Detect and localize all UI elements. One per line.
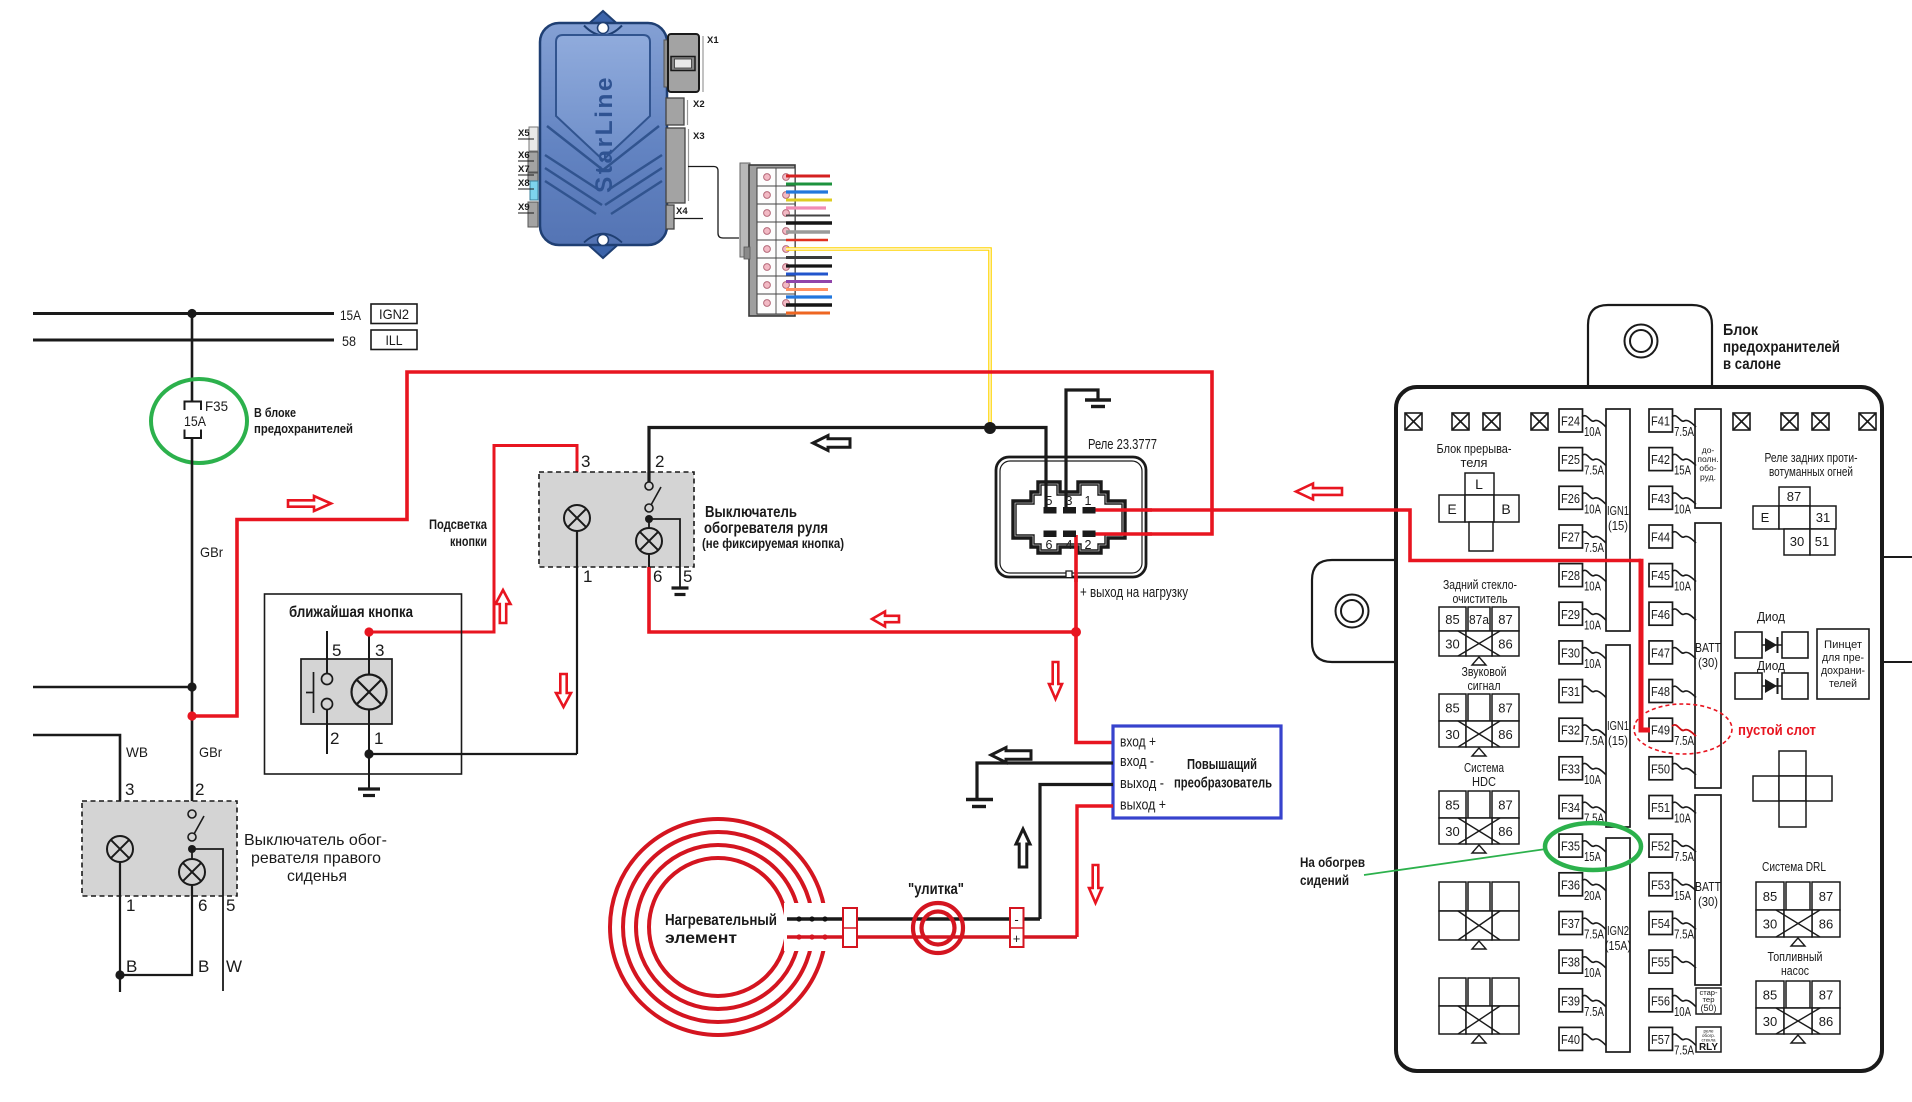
svg-text:3: 3 [125, 780, 134, 799]
svg-text:вход +: вход + [1120, 734, 1156, 751]
svg-text:Повышащий: Повышащий [1187, 756, 1257, 773]
svg-text:F48: F48 [1651, 685, 1670, 699]
fuse box body [1396, 387, 1882, 1071]
steering wheel heater switch [539, 472, 694, 567]
relay pins [1044, 507, 1096, 537]
svg-text:X2: X2 [693, 99, 705, 110]
wire red heater to converter [787, 935, 1077, 939]
svg-text:X3: X3 [693, 131, 705, 142]
svg-text:элемент: элемент [665, 930, 737, 947]
main wiring connector block [740, 163, 750, 257]
node ILL box [371, 330, 417, 350]
svg-text:+: + [1013, 931, 1021, 946]
connectors X5-X9 [529, 127, 538, 151]
svg-text:Блок: Блок [1723, 322, 1758, 339]
svg-text:+ выход на нагрузку: + выход на нагрузку [1080, 584, 1188, 601]
svg-text:86: 86 [1819, 1014, 1833, 1029]
svg-text:IGN1: IGN1 [1607, 504, 1629, 518]
wire relay pin3 to ground [1066, 390, 1098, 509]
fuse F25 [1559, 448, 1606, 478]
svg-text:F32: F32 [1561, 724, 1580, 738]
svg-text:для пре-: для пре- [1822, 652, 1864, 664]
pin 3 wire [368, 632, 370, 675]
arrow black left (вход-) [991, 748, 1031, 763]
svg-text:F49: F49 [1651, 724, 1670, 738]
svg-text:WB: WB [126, 744, 148, 760]
svg-text:10A: 10A [1674, 1005, 1691, 1019]
lamp 2 [636, 528, 662, 554]
svg-text:сигнал: сигнал [1468, 678, 1501, 693]
svg-text:F35: F35 [205, 398, 228, 414]
svg-text:30: 30 [1790, 534, 1804, 549]
svg-text:2: 2 [1085, 538, 1092, 552]
svg-text:F36: F36 [1561, 878, 1580, 892]
svg-text:7.5A: 7.5A [1674, 927, 1695, 941]
fuse F44 [1649, 525, 1696, 548]
svg-text:1: 1 [126, 896, 135, 915]
fuse F33 [1559, 757, 1606, 787]
svg-text:выход +: выход + [1120, 797, 1166, 814]
svg-text:10A: 10A [1584, 657, 1601, 671]
bus bar IGN1 (15) upper [1606, 409, 1630, 631]
nearest button box (ближайшая кнопка) [265, 594, 462, 774]
fuse F56 [1649, 989, 1696, 1019]
wire segments over relay body [1044, 455, 1047, 509]
svg-text:очиститель: очиститель [1453, 591, 1508, 606]
svg-text:сиденья: сиденья [287, 868, 347, 885]
svg-text:10A: 10A [1584, 425, 1601, 439]
fuse F54 [1649, 912, 1696, 942]
right edge tick marks [1884, 556, 1912, 558]
svg-text:10A: 10A [1674, 812, 1691, 826]
svg-text:стар-: стар- [1700, 990, 1719, 997]
fuse F24 [1559, 409, 1606, 439]
svg-text:F25: F25 [1561, 453, 1580, 467]
svg-text:86: 86 [1498, 637, 1512, 652]
svg-text:10A: 10A [1584, 580, 1601, 594]
svg-text:(50): (50) [1701, 1003, 1717, 1013]
arrow red down (to converter) [1049, 662, 1062, 699]
svg-text:ближайшая кнопка: ближайшая кнопка [289, 604, 413, 621]
fuse F41 [1649, 409, 1696, 439]
fuse F39 [1559, 989, 1606, 1019]
node junction GBr [187, 682, 196, 691]
pin1 wire down [576, 531, 578, 754]
wire ILL feed line [33, 339, 334, 342]
right seat heater switch [82, 801, 237, 896]
wire WB [33, 735, 120, 801]
svg-text:Выключатель: Выключатель [705, 504, 797, 521]
svg-text:15A: 15A [340, 307, 362, 323]
svg-text:F56: F56 [1651, 994, 1670, 1008]
arrow red down (pin1 wire) [556, 674, 571, 707]
crossed square connectors (top row) [1405, 413, 1876, 430]
pin 2 wire [326, 710, 328, 754]
node red junction at converter feed [1071, 627, 1081, 637]
svg-text:предохранителей: предохранителей [254, 421, 353, 436]
fuse F53 [1649, 873, 1696, 903]
fuse F27 [1559, 525, 1606, 555]
svg-text:F38: F38 [1561, 956, 1580, 970]
svg-text:5: 5 [332, 641, 341, 660]
svg-text:10A: 10A [1584, 502, 1601, 516]
wire black heater to converter [787, 917, 1040, 920]
arrow red down (выход+) [1089, 865, 1102, 903]
svg-text:20A: 20A [1584, 889, 1601, 903]
svg-text:Диод: Диод [1757, 658, 1785, 673]
svg-text:(30): (30) [1698, 656, 1718, 670]
fuse F36 [1559, 873, 1606, 903]
svg-text:6: 6 [198, 896, 207, 915]
svg-text:6: 6 [653, 567, 662, 586]
svg-text:F55: F55 [1651, 956, 1670, 970]
node red dot pin3 [364, 627, 373, 636]
fuse F51 [1649, 796, 1696, 826]
svg-text:Система DRL: Система DRL [1762, 859, 1826, 874]
svg-text:5: 5 [1046, 494, 1053, 508]
svg-text:10A: 10A [1584, 966, 1601, 980]
fuse F35 [1559, 834, 1606, 864]
fuse F37 [1559, 912, 1606, 942]
svg-text:Задний стекло-: Задний стекло- [1443, 577, 1517, 592]
node IGN2 box [371, 304, 417, 324]
svg-text:F28: F28 [1561, 569, 1580, 583]
switch contacts [645, 482, 653, 490]
svg-text:предохранителей: предохранителей [1723, 339, 1840, 356]
fuse F31 [1559, 680, 1606, 703]
StarLine decorative stripes [545, 155, 662, 214]
svg-text:F46: F46 [1651, 608, 1670, 622]
svg-text:X5: X5 [518, 128, 530, 139]
connector X3 [666, 128, 685, 203]
svg-text:85: 85 [1445, 798, 1459, 813]
svg-text:ILL: ILL [386, 332, 403, 348]
svg-text:RLY: RLY [1699, 1042, 1718, 1053]
arrow red left (fuse box feed) [1296, 484, 1342, 500]
svg-text:58: 58 [342, 333, 356, 349]
bus bar дополн. оборуд. [1695, 409, 1721, 508]
wire выход- [1040, 785, 1113, 920]
ground below pin 5 [672, 586, 689, 589]
green circle highlight around F35 [151, 379, 247, 463]
connector on heater wires [843, 908, 857, 947]
svg-text:сидений: сидений [1300, 872, 1349, 888]
connector X4 [666, 205, 674, 229]
svg-text:X9: X9 [518, 202, 530, 213]
svg-text:В блоке: В блоке [254, 405, 296, 420]
svg-text:F54: F54 [1651, 917, 1670, 931]
fuse F35 15A symbol [185, 402, 202, 411]
lamp in nearest button [352, 675, 387, 710]
RLY box at F57 [1696, 1027, 1721, 1052]
svg-text:4: 4 [1066, 538, 1073, 552]
svg-text:F29: F29 [1561, 608, 1580, 622]
fuse F28 [1559, 564, 1606, 594]
starter box at F56 [1696, 988, 1721, 1014]
fuse F43 [1649, 486, 1696, 516]
svg-text:B: B [126, 957, 137, 976]
svg-text:7.5A: 7.5A [1674, 425, 1695, 439]
svg-text:86: 86 [1819, 917, 1833, 932]
svg-text:F57: F57 [1651, 1033, 1670, 1047]
wire red button illumination branch [369, 446, 577, 633]
svg-text:3: 3 [581, 452, 590, 471]
svg-text:7.5A: 7.5A [1584, 1005, 1605, 1019]
svg-text:30: 30 [1445, 637, 1459, 652]
svg-text:F42: F42 [1651, 453, 1670, 467]
wire выход+ [1077, 806, 1113, 937]
yellow wire from connector to relay junction [786, 249, 990, 426]
svg-text:"улитка": "улитка" [908, 881, 964, 898]
svg-text:Блок прерыва-: Блок прерыва- [1437, 441, 1512, 456]
svg-text:Топливный: Топливный [1768, 949, 1823, 964]
arrow red left (pin6 wire) [872, 612, 899, 627]
svg-text:30: 30 [1445, 824, 1459, 839]
wire вход- to ground [977, 763, 1113, 798]
svg-text:86: 86 [1498, 727, 1512, 742]
svg-text:насос: насос [1781, 963, 1809, 978]
svg-text:Система: Система [1464, 760, 1505, 775]
svg-text:B: B [1501, 501, 1510, 517]
svg-text:3: 3 [375, 641, 384, 660]
StarLine body [540, 23, 667, 245]
fuse F45 [1649, 564, 1696, 594]
svg-text:F53: F53 [1651, 878, 1670, 892]
svg-text:10A: 10A [1584, 618, 1601, 632]
fuse F40 [1559, 1027, 1606, 1050]
svg-text:5: 5 [683, 567, 692, 586]
connector X1 [664, 40, 669, 87]
boost converter box [1113, 726, 1281, 818]
StarLine shield panel [556, 35, 650, 160]
svg-text:31: 31 [1816, 510, 1830, 525]
svg-text:15A: 15A [1674, 464, 1691, 478]
fuse F46 [1649, 602, 1696, 625]
wire red relay pin4 down to converter [1074, 537, 1078, 632]
wire X3 to main connector [688, 167, 739, 239]
svg-text:6: 6 [1046, 538, 1053, 552]
pin 1 wire + ground [368, 709, 370, 788]
svg-text:выход -: выход - [1120, 775, 1164, 792]
wire GBr vertical [191, 314, 194, 402]
node junction yellow/black [984, 422, 996, 434]
fuse F38 [1559, 950, 1606, 980]
svg-text:F31: F31 [1561, 685, 1580, 699]
switch contacts [322, 674, 333, 685]
svg-text:F33: F33 [1561, 762, 1580, 776]
svg-text:теля: теля [1461, 455, 1488, 470]
svg-text:-: - [1014, 912, 1018, 927]
fuse F49 [1649, 718, 1696, 748]
svg-text:преобразователь: преобразователь [1174, 775, 1272, 792]
arrow black up (выход-) [1016, 829, 1030, 867]
node junction on IGN2 line [187, 309, 196, 318]
svg-text:X4: X4 [676, 206, 688, 217]
svg-text:7.5A: 7.5A [1584, 734, 1605, 748]
fuse F48 [1649, 680, 1696, 703]
svg-text:87: 87 [1498, 798, 1512, 813]
svg-text:(15): (15) [1608, 734, 1628, 748]
svg-text:ревателя правого: ревателя правого [251, 850, 381, 867]
svg-text:(не фиксируемая кнопка): (не фиксируемая кнопка) [702, 535, 844, 551]
svg-text:F50: F50 [1651, 762, 1670, 776]
svg-text:BATT: BATT [1695, 880, 1721, 894]
svg-text:IGN1: IGN1 [1607, 719, 1629, 733]
StarLine top mounting tab [584, 11, 622, 47]
улитка coil [913, 903, 963, 953]
top mounting tab [1588, 305, 1712, 386]
svg-text:Выключатель обог-: Выключатель обог- [244, 832, 387, 849]
wire red illumination feed (GBr tap to relay pin 2) [192, 372, 1212, 716]
svg-text:7.5A: 7.5A [1584, 464, 1605, 478]
svg-text:Реле задних проти-: Реле задних проти- [1765, 450, 1858, 465]
svg-text:F27: F27 [1561, 530, 1580, 544]
green highlight F35 [1545, 823, 1641, 870]
svg-text:F26: F26 [1561, 492, 1580, 506]
svg-text:F37: F37 [1561, 917, 1580, 931]
svg-text:Подсветка: Подсветка [429, 516, 487, 532]
svg-text:Пинцет: Пинцет [1824, 639, 1862, 651]
svg-text:87: 87 [1787, 489, 1801, 504]
fuse F52 [1649, 834, 1696, 864]
svg-text:1: 1 [1085, 494, 1092, 508]
arrow red right (to подсветка) [288, 496, 331, 511]
svg-text:вход -: вход - [1120, 753, 1154, 770]
svg-text:HDC: HDC [1472, 774, 1496, 789]
pin 5 wire [326, 631, 328, 673]
unlabeled relay block 2 [1439, 978, 1519, 1034]
svg-text:F45: F45 [1651, 569, 1670, 583]
svg-text:телей: телей [1829, 678, 1857, 690]
svg-text:1: 1 [374, 729, 383, 748]
fuse F57 [1649, 1027, 1696, 1057]
svg-text:GBr: GBr [199, 744, 222, 760]
fuse F50 [1649, 757, 1696, 780]
connector coloured wires [786, 175, 830, 178]
svg-text:85: 85 [1763, 988, 1777, 1003]
svg-text:F51: F51 [1651, 801, 1670, 815]
svg-text:1: 1 [583, 567, 592, 586]
wire red inside fuse box to F49 [1394, 510, 1641, 561]
svg-text:IGN2: IGN2 [379, 306, 409, 322]
svg-text:(30): (30) [1698, 895, 1718, 909]
svg-text:F44: F44 [1651, 530, 1670, 544]
bus bar BATT (30) lower [1695, 795, 1721, 985]
svg-text:дохрани-: дохрани- [1821, 665, 1865, 677]
fuse F32 [1559, 718, 1606, 748]
heating element coil [610, 819, 826, 1035]
svg-text:Реле 23.3777: Реле 23.3777 [1088, 436, 1157, 453]
svg-text:F47: F47 [1651, 646, 1670, 660]
svg-text:30: 30 [1763, 1014, 1777, 1029]
svg-text:IGN2: IGN2 [1607, 924, 1629, 938]
svg-text:X8: X8 [518, 178, 530, 189]
svg-text:7.5A: 7.5A [1584, 927, 1605, 941]
svg-text:W: W [226, 957, 242, 976]
svg-text:X7: X7 [518, 164, 530, 175]
svg-text:5: 5 [226, 896, 235, 915]
fuse F30 [1559, 641, 1606, 671]
svg-text:вотуманных огней: вотуманных огней [1769, 464, 1853, 479]
svg-text:в салоне: в салоне [1723, 356, 1781, 373]
svg-text:87: 87 [1819, 988, 1833, 1003]
svg-text:Диод: Диод [1757, 609, 1785, 624]
svg-text:15A: 15A [1674, 889, 1691, 903]
svg-text:87: 87 [1819, 889, 1833, 904]
svg-text:85: 85 [1445, 701, 1459, 716]
connector X8 (cyan) [530, 181, 538, 200]
svg-text:B: B [198, 957, 209, 976]
wire IGN2 feed line [33, 312, 334, 315]
svg-text:F40: F40 [1561, 1033, 1580, 1047]
svg-text:10A: 10A [1674, 502, 1691, 516]
svg-text:руд.: руд. [1700, 472, 1716, 482]
svg-text:10A: 10A [1584, 773, 1601, 787]
svg-text:2: 2 [655, 452, 664, 471]
bus bar BATT (30) upper [1695, 523, 1721, 788]
svg-text:пустой слот: пустой слот [1738, 722, 1816, 739]
arrow red up (near ближайшая кнопка) [496, 590, 511, 623]
svg-text:(15): (15) [1608, 519, 1628, 533]
svg-text:F52: F52 [1651, 840, 1670, 854]
svg-text:87a: 87a [1469, 612, 1490, 627]
fuse F55 [1649, 950, 1696, 973]
svg-text:87: 87 [1498, 612, 1512, 627]
svg-text:51: 51 [1815, 534, 1829, 549]
svg-text:X6: X6 [518, 150, 530, 161]
pin2 black wire from top to relay pin 5 [649, 428, 1046, 510]
svg-text:7.5A: 7.5A [1584, 541, 1605, 555]
svg-text:Нагревательный: Нагревательный [665, 912, 777, 929]
ground symbol below nearest button [358, 787, 380, 790]
svg-text:F34: F34 [1561, 801, 1580, 815]
svg-text:F43: F43 [1651, 492, 1670, 506]
empty relay cross [1753, 751, 1832, 827]
svg-text:X1: X1 [707, 35, 719, 46]
fuse F47 [1649, 641, 1696, 664]
svg-text:F41: F41 [1651, 415, 1670, 429]
node red tap on GBr [187, 711, 196, 720]
fuse F34 [1559, 796, 1606, 826]
bus bar IGN2 (15A) [1606, 838, 1630, 1052]
svg-text:E: E [1447, 501, 1456, 517]
svg-text:15A: 15A [184, 413, 207, 429]
arrow black left (relay feed wire) [813, 436, 850, 451]
svg-text:10A: 10A [1674, 580, 1691, 594]
svg-text:Звуковой: Звуковой [1462, 664, 1507, 679]
svg-text:2: 2 [330, 729, 339, 748]
svg-text:F24: F24 [1561, 415, 1580, 429]
illumination lamp [564, 505, 590, 531]
svg-text:86: 86 [1498, 824, 1512, 839]
connector with -/+ [1010, 908, 1024, 947]
svg-text:GBr: GBr [200, 544, 223, 560]
svg-text:30: 30 [1445, 727, 1459, 742]
svg-text:E: E [1761, 510, 1770, 525]
left mounting tab [1312, 560, 1394, 662]
svg-text:7.5A: 7.5A [1674, 850, 1695, 864]
svg-text:2: 2 [195, 780, 204, 799]
unlabeled relay block 1 [1439, 882, 1519, 940]
svg-text:F35: F35 [1561, 840, 1580, 854]
svg-text:F30: F30 [1561, 646, 1580, 660]
svg-text:85: 85 [1763, 889, 1777, 904]
svg-text:15A: 15A [1584, 850, 1601, 864]
svg-text:На обогрев: На обогрев [1300, 854, 1365, 870]
svg-text:85: 85 [1445, 612, 1459, 627]
fuse F26 [1559, 486, 1606, 516]
svg-text:кнопки: кнопки [450, 533, 487, 549]
